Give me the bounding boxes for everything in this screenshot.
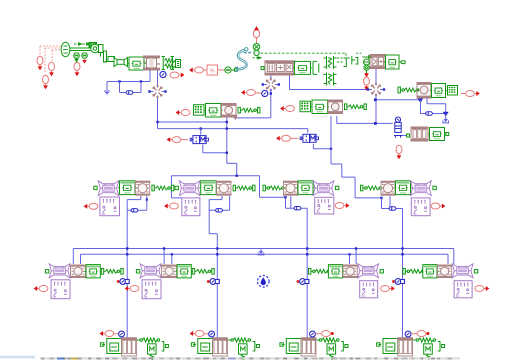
- svg-text:%: %: [210, 68, 215, 74]
